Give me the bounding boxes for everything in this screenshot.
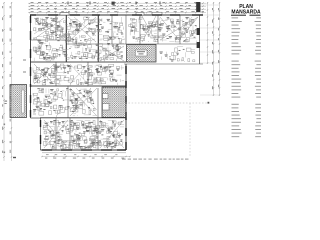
dormer bumps above top wall	[136, 12, 144, 15]
left wall poche segments	[30, 16, 32, 23]
bottom dimension line	[42, 156, 130, 158]
right dimension number labels	[211, 8, 214, 10]
bottom dimension labels	[45, 157, 47, 160]
hatched balcony H2 (left)	[10, 85, 27, 118]
building outer wall: top	[30, 14, 203, 16]
left dimension number labels	[1, 6, 4, 8]
left margin small labels	[5, 101, 8, 102]
dashed roof overhang line horizontal	[122, 102, 207, 104]
right dim connector lines	[200, 4, 220, 6]
small marker at end of dashed line	[208, 102, 210, 104]
right dimension lines	[207, 2, 209, 64]
interior partition walls	[55, 15, 57, 40]
note text row bottom middle	[122, 159, 126, 160]
hatched terrace H3 (bottom middle, diagonal corner)	[102, 87, 126, 118]
bottom wall poche segments	[42, 149, 52, 151]
left dimension lines	[3, 2, 5, 161]
building outer wall: left lower step	[40, 118, 42, 150]
top dimension ticks	[29, 2, 30, 4]
secondary roof diagonals	[40, 18, 64, 34]
building bottom edge of top band (x 127-203)	[124, 63, 203, 65]
north arrow mark	[13, 157, 16, 158]
fine interior linework	[48, 43, 50, 47]
roof slope diagonals	[34, 18, 64, 39]
wing bottom wall	[41, 149, 127, 151]
main interior bearing walls	[30, 61, 126, 63]
bottom dimension labels above line	[46, 153, 49, 156]
building outer wall: left	[30, 15, 32, 118]
furniture and fixtures clutter	[81, 56, 86, 58]
wing right wall poche segments	[125, 66, 127, 74]
legend header bar	[231, 15, 246, 16]
small text label specks	[101, 26, 104, 29]
top wall poche segments	[30, 14, 36, 16]
door swing arcs	[60, 35, 65, 40]
dashed roof overhang line vertical	[189, 103, 191, 157]
left dimension ticks	[3, 2, 4, 3]
wing right wall	[125, 64, 127, 150]
wing cross wall y=118	[40, 117, 126, 119]
hatched terrace H1 (top middle)	[127, 45, 157, 63]
section marker top	[112, 2, 115, 5]
top dimension lines	[28, 2, 206, 4]
legend rows	[232, 16, 239, 19]
top dimension number labels	[31, 1, 34, 4]
right dimension ticks	[207, 2, 208, 3]
bottom dimension ticks	[41, 156, 42, 157]
building outer wall: right of top band	[199, 15, 201, 64]
right wall poche segments	[196, 2, 200, 12]
